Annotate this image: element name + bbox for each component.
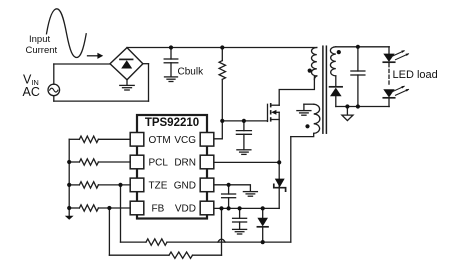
svg-text:TPS92210: TPS92210	[145, 117, 199, 129]
svg-text:FB: FB	[152, 204, 165, 215]
svg-text:TZE: TZE	[149, 181, 168, 192]
svg-text:VDD: VDD	[175, 204, 196, 215]
svg-text:AC: AC	[23, 85, 40, 99]
svg-text:OTM: OTM	[149, 135, 171, 146]
svg-text:Input: Input	[29, 34, 50, 45]
svg-text:GND: GND	[174, 181, 196, 192]
svg-text:VCG: VCG	[174, 135, 196, 146]
svg-text:DRN: DRN	[174, 158, 196, 169]
svg-text:Cbulk: Cbulk	[178, 67, 205, 78]
svg-text:LED load: LED load	[393, 69, 438, 81]
svg-text:PCL: PCL	[149, 158, 169, 169]
svg-text:Current: Current	[26, 45, 58, 56]
